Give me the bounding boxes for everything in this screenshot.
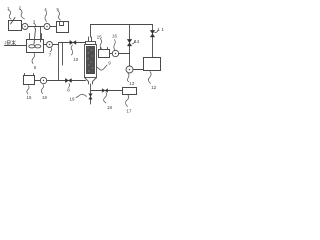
- svg-text:16: 16: [42, 95, 47, 100]
- label 9 leader: [97, 65, 107, 70]
- pump 16b: [112, 50, 118, 56]
- wire riser manifold: [58, 43, 60, 81]
- vessel neck ticks: [29, 34, 31, 40]
- label 14 leader: [132, 41, 135, 45]
- svg-text:13: 13: [129, 81, 134, 86]
- column 9 neck: [89, 37, 92, 42]
- column 9 bottom funnel: [85, 78, 89, 85]
- valve 19: [89, 94, 92, 99]
- wire bottom line to column foot: [47, 80, 86, 82]
- svg-text:17: 17: [127, 109, 132, 114]
- pump 2: [22, 24, 28, 30]
- wire pump13 to tank12: [133, 69, 144, 71]
- tank 12: [144, 58, 161, 71]
- label 17 leader: [125, 95, 128, 107]
- tank 17: [123, 88, 137, 95]
- pump 16: [40, 77, 46, 83]
- wire downcomer into vessel: [40, 27, 42, 43]
- valve 10: [70, 41, 76, 45]
- valve 8: [66, 79, 72, 83]
- wire column bottom drain: [90, 84, 92, 104]
- label 15b leader: [100, 39, 102, 49]
- wire pump16b to drop line: [119, 53, 130, 55]
- tank 15b (scrubber): [99, 50, 110, 58]
- label 6 leader: [32, 53, 35, 64]
- wire riser to column top: [59, 42, 86, 44]
- label 10 leader: [71, 45, 73, 55]
- stirrer blades: [29, 45, 35, 48]
- column 9 top cap: [86, 42, 96, 45]
- wire tank15b to pump16b: [110, 53, 113, 55]
- wire column top overhead line: [91, 24, 153, 26]
- wire overhead drop to tank12: [152, 25, 154, 58]
- svg-text:14: 14: [134, 39, 139, 44]
- wire overhead to column neck: [90, 25, 92, 38]
- bottle 5: [57, 22, 69, 33]
- svg-text:16: 16: [112, 34, 117, 39]
- svg-text:19: 19: [70, 97, 75, 102]
- column 9 packed bed: [86, 46, 95, 74]
- label 8 leader: [69, 84, 70, 88]
- tank 15 (wash reservoir): [24, 76, 35, 85]
- pump 13: [126, 66, 133, 73]
- bottle 1 dip tube: [11, 18, 16, 25]
- wire column bottom to tank17: [91, 90, 123, 92]
- svg-text:15: 15: [97, 35, 102, 40]
- number labels: [7, 6, 165, 114]
- label 5 leader: [58, 11, 61, 20]
- label 16 leader: [41, 85, 43, 94]
- label 2 leader: [20, 9, 25, 19]
- label 16b leader: [114, 40, 115, 51]
- pump 4: [44, 24, 50, 30]
- svg-text:10: 10: [73, 57, 78, 62]
- wire manifold pump2 to pump4: [28, 26, 44, 28]
- wire sample stub: [62, 43, 64, 66]
- valve 18: [102, 89, 107, 93]
- hot water text (hand-drawn kanji 温水): [5, 40, 16, 45]
- wire vessel to pump7: [44, 44, 47, 46]
- svg-text:15: 15: [27, 95, 32, 100]
- label 11 leader: [155, 30, 158, 33]
- stirred vessel 6: [27, 40, 44, 53]
- label 15 leader: [27, 86, 29, 95]
- wire overhead drop to pump13: [129, 25, 131, 67]
- svg-text:12: 12: [151, 85, 156, 90]
- wire pump4 to bottle5: [50, 26, 57, 28]
- label 18 leader: [104, 93, 107, 104]
- label 1 leader: [9, 10, 12, 19]
- valve 11: [150, 31, 154, 38]
- bottle 1 (reagent bottle): [9, 21, 22, 31]
- label 19 leader: [76, 94, 87, 97]
- svg-text:18: 18: [107, 105, 112, 110]
- svg-text:11: 11: [158, 27, 165, 32]
- stirrer shaft: [34, 29, 36, 44]
- wire tank15 to pump16: [35, 80, 41, 82]
- valve 14: [127, 40, 131, 47]
- label 12 leader: [148, 72, 151, 84]
- label 4 leader: [45, 11, 47, 22]
- label 13 leader: [127, 73, 129, 82]
- pump 7: [47, 42, 53, 48]
- wire bottle1 to pump: [21, 26, 24, 28]
- label 7 leader: [50, 48, 52, 52]
- label 3 leader: [34, 24, 36, 30]
- column 9 body: [85, 45, 97, 78]
- hot water feed line: [5, 45, 27, 47]
- wire pump7 to riser: [53, 44, 59, 46]
